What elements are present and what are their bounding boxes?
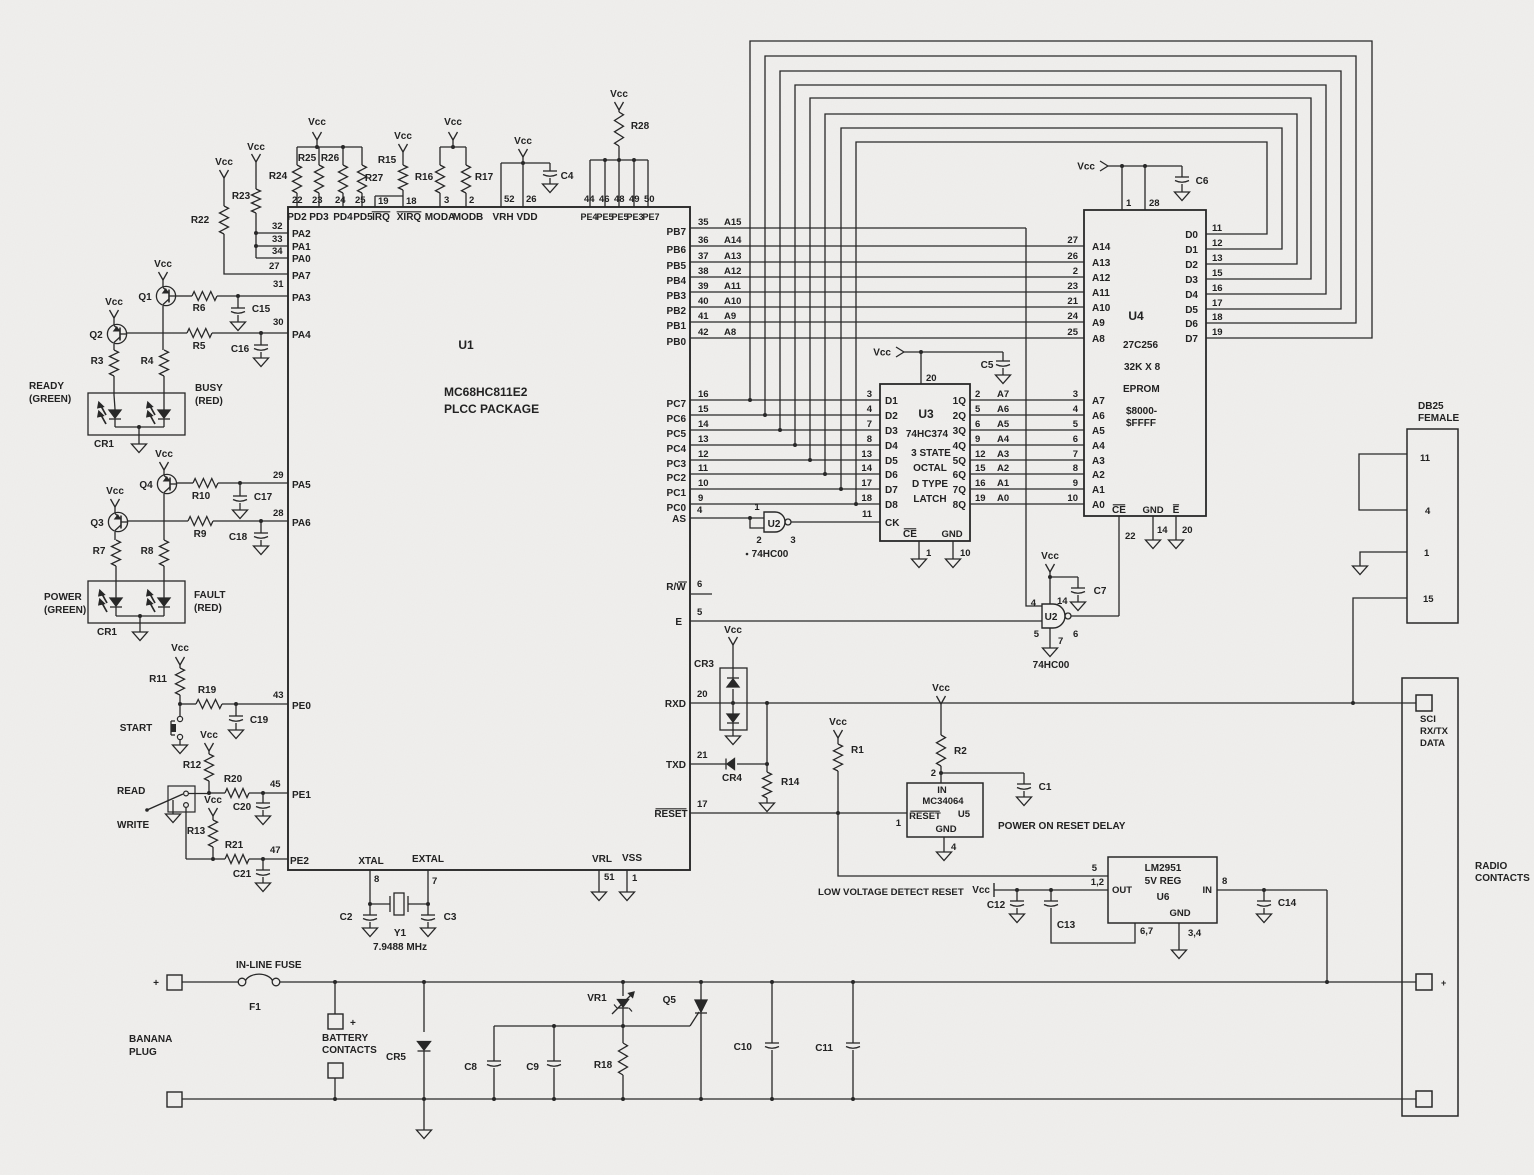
wire Q2 collector [113, 344, 115, 350]
svg-text:46: 46 [599, 194, 610, 205]
svg-text:R1: R1 [851, 745, 864, 756]
svg-text:26: 26 [1067, 251, 1078, 262]
svg-text:C7: C7 [1094, 586, 1107, 597]
svg-text:31: 31 [273, 279, 284, 290]
svg-text:2: 2 [1073, 266, 1078, 277]
svg-text:SCI: SCI [1420, 714, 1436, 725]
wire top rail [182, 980, 1416, 984]
svg-text:FAULT: FAULT [194, 590, 225, 601]
svg-text:RESET: RESET [909, 811, 941, 822]
svg-text:C12: C12 [987, 900, 1006, 911]
svg-text:40: 40 [698, 296, 709, 307]
svg-text:CR3: CR3 [694, 659, 714, 670]
svg-text:C18: C18 [229, 532, 248, 543]
svg-text:PA7: PA7 [292, 271, 311, 282]
svg-text:VR1: VR1 [587, 993, 607, 1004]
svg-text:43: 43 [273, 690, 284, 701]
ground VRL [592, 870, 616, 901]
svg-text:R19: R19 [198, 685, 217, 696]
resistor R28 [610, 89, 650, 160]
svg-text:A12: A12 [724, 266, 741, 277]
svg-text:R22: R22 [191, 215, 210, 226]
svg-text:10: 10 [960, 548, 971, 559]
svg-text:VSS: VSS [622, 853, 642, 864]
svg-text:C13: C13 [1057, 920, 1076, 931]
op-amp U5 MC34064 box [896, 783, 983, 837]
svg-text:14: 14 [1157, 525, 1168, 536]
svg-text:D2: D2 [1185, 260, 1198, 271]
svg-text:29: 29 [273, 470, 284, 481]
svg-text:7: 7 [1073, 449, 1078, 460]
U4 address pin labels lower [1092, 396, 1105, 511]
resistor R21 [211, 840, 288, 864]
svg-text:Y1: Y1 [394, 928, 407, 939]
svg-text:Vcc: Vcc [932, 683, 950, 694]
wire U2a output to CK [791, 509, 880, 522]
svg-text:Q5: Q5 [663, 995, 677, 1006]
svg-text:5: 5 [1073, 419, 1079, 430]
svg-text:20: 20 [1182, 525, 1193, 536]
svg-text:PE0: PE0 [292, 701, 311, 712]
U6 ground pins 3,4 [1172, 923, 1202, 959]
svg-text:14: 14 [861, 463, 872, 474]
svg-text:Vcc: Vcc [215, 157, 233, 168]
svg-text:Vcc: Vcc [105, 297, 123, 308]
svg-text:C16: C16 [231, 344, 250, 355]
resistor R1 [829, 717, 864, 813]
U1 left pin numbers [269, 221, 284, 856]
svg-text:14: 14 [698, 419, 709, 430]
svg-text:13: 13 [1212, 253, 1223, 264]
wire RW stub (pin 6) [666, 579, 712, 594]
svg-text:VRL: VRL [592, 854, 612, 865]
svg-text:13: 13 [698, 434, 709, 445]
svg-text:16: 16 [975, 478, 986, 489]
svg-text:30: 30 [273, 317, 284, 328]
op-amp U2 74HC00 gate A [754, 502, 795, 546]
svg-text:R12: R12 [183, 760, 202, 771]
svg-text:28: 28 [1149, 198, 1160, 209]
switch READ/WRITE [117, 786, 195, 831]
wire PA0 [256, 257, 288, 259]
svg-text:5: 5 [1092, 863, 1098, 874]
capacitor C9 [526, 1026, 561, 1099]
svg-text:D4: D4 [885, 441, 898, 452]
svg-text:U2: U2 [1045, 612, 1058, 623]
svg-text:(GREEN): (GREEN) [29, 394, 71, 405]
op-amp U6 LM2951 box [1108, 857, 1217, 923]
resistor R8 [141, 540, 169, 597]
wire WRITE contact to PE2 [186, 807, 213, 859]
svg-text:15: 15 [975, 463, 986, 474]
svg-text:BATTERY: BATTERY [322, 1033, 368, 1044]
svg-text:7Q: 7Q [953, 485, 967, 496]
LED READY green [98, 402, 121, 427]
svg-text:Vcc: Vcc [171, 643, 189, 654]
svg-text:GND: GND [941, 529, 962, 540]
U1 labels [444, 338, 539, 416]
wire A2 latch output [953, 463, 1084, 481]
wire data loop PC1-D1 [841, 128, 1282, 489]
svg-text:41: 41 [698, 311, 709, 322]
svg-text:10: 10 [698, 478, 709, 489]
svg-text:23: 23 [1067, 281, 1078, 292]
svg-text:34: 34 [272, 246, 283, 257]
svg-text:16: 16 [698, 389, 709, 400]
svg-text:9: 9 [698, 493, 703, 504]
svg-text:D7: D7 [1185, 334, 1198, 345]
svg-text:Vcc: Vcc [154, 259, 172, 270]
svg-text:U6: U6 [1157, 892, 1170, 903]
svg-text:IN: IN [1203, 885, 1213, 896]
wire PC5 data (pin 14) [667, 419, 880, 440]
label 74HC00 A [746, 549, 789, 560]
svg-text:19: 19 [1212, 327, 1223, 338]
svg-text:R7: R7 [93, 546, 106, 557]
svg-text:A6: A6 [997, 404, 1009, 415]
svg-text:C4: C4 [561, 171, 574, 182]
svg-text:LOW VOLTAGE DETECT RESET: LOW VOLTAGE DETECT RESET [818, 887, 964, 898]
svg-text:RADIO: RADIO [1475, 861, 1507, 872]
svg-text:24: 24 [335, 195, 346, 206]
svg-text:27C256: 27C256 [1123, 340, 1158, 351]
svg-text:13: 13 [861, 449, 872, 460]
wire Q3 collector [114, 532, 116, 540]
svg-text:Vcc: Vcc [308, 117, 326, 128]
wire RESET (pin 17) [654, 799, 907, 820]
resistor R3 [91, 350, 119, 409]
zener VR1 [587, 982, 634, 1026]
svg-text:C2: C2 [340, 912, 353, 923]
svg-text:C15: C15 [252, 304, 271, 315]
svg-text:49: 49 [629, 194, 640, 205]
svg-text:BANANA: BANANA [129, 1034, 172, 1045]
wire U2b output to CE [1071, 615, 1119, 617]
capacitor C18 [229, 519, 269, 555]
Vcc rail for R16-R17 [440, 117, 466, 149]
svg-text:EXTAL: EXTAL [412, 854, 444, 865]
svg-text:PC5: PC5 [667, 429, 687, 440]
svg-text:PB7: PB7 [667, 227, 687, 238]
svg-text:32: 32 [272, 221, 283, 232]
svg-text:A10: A10 [1092, 303, 1111, 314]
svg-text:IRQ: IRQ [372, 212, 390, 223]
svg-text:36: 36 [698, 235, 709, 246]
svg-text:74HC00: 74HC00 [752, 549, 789, 560]
svg-text:21: 21 [1067, 296, 1078, 307]
capacitor C21 [233, 857, 271, 892]
svg-text:OUT: OUT [1112, 885, 1132, 896]
resistor R4 [141, 350, 169, 409]
svg-text:A7: A7 [997, 389, 1009, 400]
wire AS (pin 4) [672, 505, 764, 525]
resistor R2 [931, 683, 968, 783]
resistor R6 [176, 292, 288, 315]
resistor R25 [298, 147, 324, 207]
resistor R12 [183, 730, 219, 793]
svg-text:D1: D1 [885, 396, 898, 407]
wire E (pin 5) [675, 607, 1042, 628]
label FAULT RED [194, 590, 225, 614]
U4 Vcc pins 1,28 + C6 [1077, 161, 1209, 210]
svg-text:FEMALE: FEMALE [1418, 413, 1459, 424]
svg-text:4: 4 [1031, 598, 1037, 609]
svg-text:A3: A3 [997, 449, 1009, 460]
svg-text:D1: D1 [1185, 245, 1198, 256]
svg-text:AS: AS [672, 514, 686, 525]
capacitor C13 [1044, 890, 1153, 943]
svg-text:BUSY: BUSY [195, 383, 223, 394]
resistor R23 [232, 142, 266, 258]
svg-text:35: 35 [698, 217, 709, 228]
svg-text:Vcc: Vcc [873, 348, 891, 359]
wire PA1 [254, 244, 288, 248]
svg-text:2Q: 2Q [953, 411, 967, 422]
Vcc rail for R24-R27 [297, 117, 362, 149]
svg-text:PD2: PD2 [287, 212, 307, 223]
svg-text:(GREEN): (GREEN) [44, 605, 86, 616]
svg-text:RESET: RESET [654, 809, 687, 820]
svg-text:16: 16 [1212, 283, 1223, 294]
svg-text:CK: CK [885, 518, 900, 529]
svg-text:D5: D5 [1185, 305, 1198, 316]
svg-text:MODB: MODB [453, 212, 484, 223]
wire PC6 data (pin 15) [667, 404, 880, 425]
switch START pushbutton [120, 704, 188, 754]
svg-text:17: 17 [861, 478, 872, 489]
op-amp U4 27C256 box [1084, 210, 1206, 516]
svg-text:5V REG: 5V REG [1145, 876, 1182, 887]
svg-text:OCTAL: OCTAL [913, 463, 947, 474]
DB25 pin 1 ground [1353, 548, 1431, 575]
svg-text:CE: CE [903, 529, 917, 540]
svg-text:CR1: CR1 [97, 627, 117, 638]
svg-text:PC6: PC6 [667, 414, 687, 425]
wire A4 latch output [953, 434, 1084, 452]
wire Q1 collector [162, 306, 164, 350]
ground VSS [620, 870, 639, 901]
svg-text:PE7: PE7 [642, 212, 659, 222]
svg-text:28: 28 [273, 508, 284, 519]
svg-text:R28: R28 [631, 121, 650, 132]
svg-text:Vcc: Vcc [247, 142, 265, 153]
svg-text:17: 17 [1212, 298, 1223, 309]
svg-text:PC3: PC3 [667, 459, 687, 470]
resistor R26 [321, 147, 348, 207]
wire Vcc OUT pins 1,2 [972, 877, 1108, 897]
svg-text:Vcc: Vcc [1041, 551, 1059, 562]
svg-text:52: 52 [504, 194, 515, 205]
svg-text:A9: A9 [724, 311, 736, 322]
svg-text:25: 25 [355, 195, 366, 206]
wire A5 latch output [953, 419, 1084, 437]
svg-text:A4: A4 [997, 434, 1010, 445]
resistor R11 [149, 643, 189, 704]
svg-text:PC4: PC4 [667, 444, 687, 455]
svg-text:A11: A11 [1092, 288, 1110, 299]
resistor R22 [191, 157, 288, 274]
svg-text:18: 18 [406, 196, 417, 207]
svg-text:PA3: PA3 [292, 293, 311, 304]
resistor R18 [594, 1026, 628, 1099]
svg-text:VRH: VRH [492, 212, 513, 223]
U1 left pin names [290, 229, 311, 867]
capacitor C1 [941, 773, 1052, 806]
svg-text:POWER: POWER [44, 592, 83, 603]
svg-text:U4: U4 [1128, 309, 1144, 323]
svg-text:R9: R9 [194, 529, 207, 540]
svg-text:D4: D4 [1185, 290, 1198, 301]
svg-text:PB0: PB0 [667, 337, 687, 348]
svg-text:6: 6 [975, 419, 980, 430]
svg-text:POWER ON RESET DELAY: POWER ON RESET DELAY [998, 821, 1126, 832]
svg-text:C17: C17 [254, 492, 273, 503]
svg-text:A1: A1 [1092, 485, 1105, 496]
U4 address pin labels upper [1067, 235, 1110, 345]
svg-text:PB4: PB4 [667, 276, 687, 287]
svg-text:5: 5 [1034, 629, 1040, 640]
label POWER ON RESET DELAY [998, 821, 1126, 832]
svg-text:PD4: PD4 [333, 212, 353, 223]
fuse F1 [236, 960, 302, 1013]
svg-text:Vcc: Vcc [829, 717, 847, 728]
svg-text:7.9488 MHz: 7.9488 MHz [373, 942, 427, 953]
svg-text:R2: R2 [954, 746, 967, 757]
svg-text:6,7: 6,7 [1140, 926, 1153, 937]
wire A1 latch output [953, 478, 1084, 496]
wire TXD (pin 21) [666, 750, 726, 771]
banana plug squares [129, 975, 182, 1107]
svg-text:CE: CE [1112, 505, 1126, 516]
svg-text:PB5: PB5 [667, 261, 687, 272]
resistor R17 [462, 147, 494, 207]
op-amp U1 MC68HC811E2 box [288, 207, 690, 870]
svg-text:25: 25 [1067, 327, 1078, 338]
svg-text:PE3: PE3 [626, 212, 643, 222]
svg-text:C10: C10 [734, 1042, 753, 1053]
resistor R19 [178, 685, 288, 709]
wire PC2 data (pin 11) [667, 463, 880, 484]
svg-text:8: 8 [867, 434, 872, 445]
wire A10 (PB2 pin 40) [667, 296, 1084, 317]
wire PC4 data (pin 13) [667, 434, 880, 455]
svg-text:PE1: PE1 [292, 790, 311, 801]
U2b Vcc pin 14 + C7 [1041, 551, 1107, 611]
capacitor C15 [231, 294, 271, 331]
svg-text:19: 19 [975, 493, 986, 504]
svg-text:PLUG: PLUG [129, 1047, 157, 1058]
svg-text:D6: D6 [885, 470, 898, 481]
battery contacts [322, 982, 377, 1099]
capacitor C3 [421, 904, 457, 937]
transistor Q5 crowbar [663, 982, 707, 1099]
radio power contact [1416, 974, 1446, 990]
capacitor C14 [1217, 876, 1327, 923]
svg-text:17: 17 [697, 799, 708, 810]
resistor R27 [358, 147, 384, 207]
svg-text:A13: A13 [724, 251, 741, 262]
wire data loop PC2-D2 [825, 114, 1297, 474]
svg-text:D2: D2 [885, 411, 898, 422]
svg-text:PD3: PD3 [309, 212, 329, 223]
wire A14 (PB6 pin 36) [667, 235, 1084, 256]
wire PA2 [254, 231, 288, 235]
svg-text:2: 2 [931, 768, 936, 779]
svg-text:R17: R17 [475, 172, 494, 183]
wire data loop PC0-D0 [856, 142, 1267, 504]
svg-text:15: 15 [1212, 268, 1223, 279]
DB25 pin 15 wire [1353, 594, 1434, 703]
svg-text:15: 15 [1423, 594, 1434, 605]
svg-text:1: 1 [1126, 198, 1132, 209]
svg-text:11: 11 [698, 463, 709, 474]
capacitor C10 [734, 982, 779, 1099]
svg-text:A0: A0 [1092, 500, 1105, 511]
svg-text:R3: R3 [91, 356, 104, 367]
svg-text:2: 2 [975, 389, 980, 400]
svg-text:8: 8 [1222, 876, 1227, 887]
svg-text:R15: R15 [378, 155, 397, 166]
svg-text:U2: U2 [768, 519, 781, 530]
svg-text:Vcc: Vcc [204, 795, 222, 806]
diode CR4 [722, 759, 769, 785]
svg-text:PA0: PA0 [292, 254, 311, 265]
svg-text:A5: A5 [997, 419, 1010, 430]
svg-text:PE2: PE2 [290, 856, 309, 867]
wire data loop PC3-D3 [810, 98, 1311, 460]
Vcc rail VRH/VDD [501, 136, 550, 207]
svg-text:R5: R5 [193, 341, 206, 352]
svg-text:A8: A8 [1092, 334, 1105, 345]
svg-text:PC2: PC2 [667, 473, 687, 484]
svg-text:E: E [1173, 505, 1180, 516]
svg-text:1: 1 [754, 502, 760, 513]
svg-text:4: 4 [867, 404, 873, 415]
svg-text:PA4: PA4 [292, 330, 311, 341]
svg-text:A2: A2 [997, 463, 1009, 474]
svg-text:21: 21 [697, 750, 708, 761]
resistor R24 [269, 147, 302, 207]
svg-text:3,4: 3,4 [1188, 928, 1202, 939]
svg-text:A10: A10 [724, 296, 741, 307]
wire A6 latch output [953, 404, 1084, 422]
nand U2a feedback wire [750, 518, 764, 528]
svg-text:Q2: Q2 [89, 330, 103, 341]
svg-text:PB6: PB6 [667, 245, 687, 256]
resistor R9 [128, 517, 288, 541]
svg-text:MODA: MODA [425, 212, 456, 223]
resistor R7 [93, 540, 121, 597]
svg-text:7: 7 [867, 419, 872, 430]
svg-text:IN: IN [937, 785, 947, 796]
svg-text:R25: R25 [298, 153, 317, 164]
svg-text:$FFFF: $FFFF [1126, 418, 1156, 429]
svg-text:F1: F1 [249, 1002, 261, 1013]
svg-text:C21: C21 [233, 869, 252, 880]
svg-text:R18: R18 [594, 1060, 613, 1071]
DB25 pin 11-4 loop [1359, 453, 1431, 517]
svg-text:A6: A6 [1092, 411, 1105, 422]
svg-text:C19: C19 [250, 715, 269, 726]
svg-text:18: 18 [861, 493, 872, 504]
svg-text:48: 48 [614, 194, 625, 205]
svg-text:C3: C3 [444, 912, 457, 923]
svg-text:2: 2 [469, 195, 474, 206]
svg-text:3 STATE: 3 STATE [911, 448, 951, 459]
svg-text:PB1: PB1 [667, 321, 687, 332]
U4 CE pin 22 [1112, 505, 1136, 616]
U4 OE pin 20 [1169, 505, 1193, 549]
